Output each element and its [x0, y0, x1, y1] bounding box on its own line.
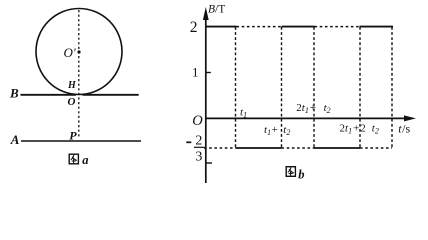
- svg-text:t1: t1: [240, 106, 247, 119]
- svg-text:a: a: [82, 153, 88, 167]
- svg-text:t1+t2: t1+t2: [264, 124, 290, 137]
- svg-text:2t1+t2: 2t1+t2: [296, 102, 330, 115]
- svg-text:2t1+2t2: 2t1+2t2: [340, 122, 379, 135]
- svg-text:B/T: B/T: [208, 4, 225, 16]
- svg-text:t/s: t/s: [398, 122, 410, 136]
- svg-text:O: O: [192, 113, 203, 129]
- svg-text:A: A: [10, 132, 20, 147]
- svg-text:O: O: [68, 96, 76, 108]
- svg-text:b: b: [298, 168, 304, 182]
- svg-text:H: H: [67, 80, 77, 91]
- svg-text:B: B: [9, 86, 19, 101]
- svg-text:1: 1: [192, 64, 199, 79]
- svg-text:2: 2: [195, 133, 202, 148]
- svg-text:P: P: [69, 128, 77, 142]
- svg-text:3: 3: [195, 149, 202, 164]
- svg-text:O′: O′: [64, 45, 76, 60]
- svg-text:2: 2: [190, 19, 198, 36]
